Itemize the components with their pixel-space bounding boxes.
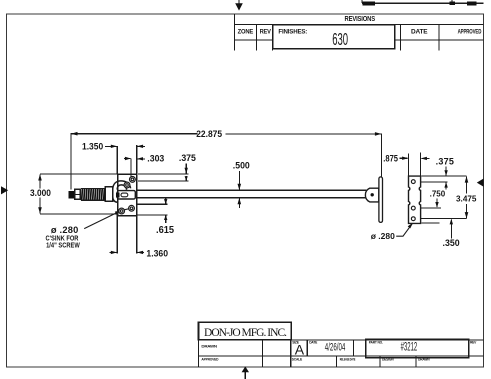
drawing dimension texts [30, 129, 477, 259]
svg-text:.615: .615 [156, 225, 175, 236]
svg-text:PART NO.: PART NO. [369, 340, 383, 344]
revisions table text [238, 16, 482, 49]
svg-text:REV: REV [470, 340, 477, 344]
svg-text:630: 630 [332, 29, 348, 49]
dim .750 [418, 198, 442, 208]
svg-text:APPROVED: APPROVED [201, 357, 219, 361]
bolt head [69, 191, 75, 199]
svg-text:ø .280: ø .280 [371, 231, 395, 241]
svg-text:.875: .875 [383, 153, 398, 164]
svg-text:DESIGN: DESIGN [382, 357, 394, 361]
plate hole top right [130, 177, 136, 183]
bottom center alignment arrow [242, 366, 249, 379]
left edge alignment arrow [1, 186, 8, 194]
revisions table [235, 14, 484, 51]
dim .875 [399, 153, 429, 176]
svg-text:22.875: 22.875 [196, 129, 222, 139]
cut-off revision row above border top right [362, 0, 484, 3]
dim .375 left [138, 164, 188, 181]
collar [105, 187, 112, 202]
bracket hole top [411, 180, 415, 184]
svg-text:A: A [295, 342, 305, 358]
svg-text:.303: .303 [147, 153, 164, 163]
svg-text:.500: .500 [233, 160, 250, 170]
bolt guide elbow [113, 181, 131, 202]
svg-text:REV: REV [260, 28, 272, 35]
plate hole bottom left [119, 208, 125, 214]
finishes box [273, 25, 395, 49]
rod end lug [365, 188, 378, 202]
part number box [366, 339, 469, 357]
spring [81, 188, 106, 200]
dim 3.000 [38, 174, 117, 214]
svg-text:DON-JO MFG. INC.: DON-JO MFG. INC. [204, 327, 287, 339]
dim 22.875 [71, 132, 381, 189]
svg-text:3.000: 3.000 [30, 188, 51, 199]
title block labels [201, 340, 477, 361]
dim .303 [124, 157, 145, 179]
leader countersink left [84, 210, 121, 228]
svg-text:DATE: DATE [309, 340, 318, 344]
svg-text:RELEASE DATE: RELEASE DATE [340, 357, 356, 362]
company name box [199, 322, 292, 339]
svg-text:DRAWN: DRAWN [418, 357, 430, 361]
svg-text:FINISHES:: FINISHES: [278, 28, 307, 35]
svg-text:DATE: DATE [411, 29, 428, 36]
dim .350 [418, 219, 467, 239]
svg-text:1.350: 1.350 [82, 141, 103, 151]
svg-text:REVISIONS: REVISIONS [345, 16, 376, 24]
svg-text:.750: .750 [430, 190, 446, 199]
dim 3.475 [465, 176, 469, 218]
bracket hole bottom [411, 217, 415, 221]
svg-text:.375: .375 [436, 156, 455, 166]
svg-text:APPROVED: APPROVED [458, 29, 482, 36]
svg-text:1.360: 1.360 [146, 248, 168, 258]
svg-text:ø .280: ø .280 [51, 225, 79, 235]
strike bracket [409, 176, 421, 223]
dim .375 right [418, 167, 467, 190]
svg-text:4/26/04: 4/26/04 [325, 341, 346, 353]
bracket hole middle [411, 206, 415, 210]
dim 1.350 [105, 145, 145, 174]
right edge alignment arrow [477, 179, 484, 187]
leader countersink right [396, 223, 413, 237]
dim .615 [137, 198, 168, 223]
plate hole top left [124, 182, 130, 188]
svg-text:DRAWN: DRAWN [201, 344, 217, 348]
bolt slot retainer [117, 191, 135, 199]
end disc [379, 177, 383, 223]
ferrule [75, 189, 81, 199]
svg-text:.350: .350 [443, 238, 460, 248]
svg-text:SCALE: SCALE [292, 357, 303, 361]
svg-text:3.475: 3.475 [456, 193, 477, 203]
dim 1.360 [109, 214, 144, 254]
mounting plate [118, 174, 137, 216]
rod [137, 189, 367, 191]
plate hole bottom right [129, 205, 135, 211]
svg-text:ZONE: ZONE [238, 28, 254, 35]
svg-text:.375: .375 [179, 153, 196, 163]
top center alignment arrow [235, 0, 243, 11]
svg-text:1/4" SCREW: 1/4" SCREW [46, 242, 80, 250]
dim .500 [238, 171, 242, 208]
svg-text:#3212: #3212 [401, 340, 418, 354]
